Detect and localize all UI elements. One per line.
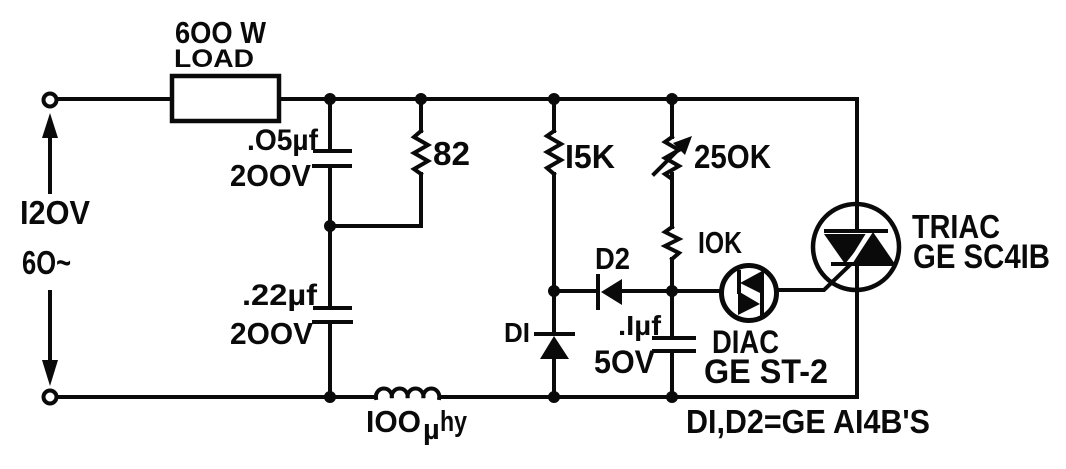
wire gate mid: D2 to DIAC <box>622 289 719 293</box>
wire right vertical upper: corner to TRIAC <box>855 99 859 202</box>
wire column A: top wire to C1 <box>328 99 332 149</box>
svg-text:IOK: IOK <box>698 225 742 260</box>
svg-text:5OV: 5OV <box>594 344 656 380</box>
node junction bottom D <box>666 391 678 403</box>
svg-text:I5K: I5K <box>565 138 615 175</box>
wire mid horizontal: node to R1 <box>330 224 421 228</box>
svg-text:GE SC4IB: GE SC4IB <box>913 238 1050 276</box>
node junction bottom C <box>548 391 560 403</box>
potentiometer R3 250K <box>654 136 692 179</box>
resistor R2 15K <box>547 131 561 174</box>
node junction top B <box>415 93 427 105</box>
arrow (source polarity, down) <box>42 292 58 386</box>
wire column D: R4 to C3 <box>670 259 674 336</box>
diac GE ST-2 <box>722 266 777 321</box>
wire column C: top wire to R2 <box>552 99 556 131</box>
node junction gate D <box>666 285 678 297</box>
arrow (source polarity, up) <box>42 113 58 192</box>
wire column B lower: to R1 <box>419 174 423 226</box>
triac GE SC41B <box>779 202 899 296</box>
wire column C: D1 to bottom wire <box>552 357 556 397</box>
wire bottom: inductor to right corner <box>440 395 857 399</box>
wire right vertical lower: TRIAC to bottom corner <box>855 264 859 397</box>
svg-text:.22µf: .22µf <box>242 279 318 312</box>
svg-text:.Iµf: .Iµf <box>618 310 662 341</box>
resistor R1 82 <box>414 131 428 174</box>
node junction A-mid <box>324 220 336 232</box>
wire top: load to right corner <box>281 97 857 101</box>
node junction top A <box>324 93 336 105</box>
diode D1 <box>536 334 573 359</box>
wire column D: top wire to R3 <box>670 99 674 137</box>
svg-text:LOAD: LOAD <box>174 45 254 73</box>
wire column B upper: R1 to top wire <box>419 99 423 131</box>
svg-text:.O5µf: .O5µf <box>247 124 319 157</box>
capacitor C1 .05uf 200V <box>314 151 350 166</box>
svg-text:D2: D2 <box>595 241 630 276</box>
svg-text:2OOV: 2OOV <box>230 316 313 351</box>
label 100uhy <box>366 404 467 446</box>
svg-text:I2OV: I2OV <box>20 194 90 231</box>
wire column D: C3 to bottom wire <box>670 353 674 397</box>
load resistor 600W LOAD <box>172 76 279 121</box>
node junction top C <box>548 93 560 105</box>
svg-text:µ: µ <box>423 414 440 446</box>
wire gate left: node to D2 <box>554 289 596 293</box>
svg-text:82: 82 <box>433 135 470 172</box>
wire top: terminal to load <box>58 97 170 101</box>
node junction gate C <box>548 285 560 297</box>
wire column C: R2 to D1 <box>552 174 556 332</box>
node junction bottom A <box>324 391 336 403</box>
capacitor C2 .22uf 200V <box>314 308 351 322</box>
svg-text:DI: DI <box>504 317 530 348</box>
svg-text:IOO: IOO <box>366 404 421 439</box>
svg-text:6O~: 6O~ <box>22 244 71 281</box>
svg-text:hy: hy <box>440 406 467 438</box>
capacitor C3 .1uf 50V <box>654 338 694 351</box>
wire column A: C2 to bottom wire <box>328 324 332 397</box>
svg-text:2OOV: 2OOV <box>230 158 311 193</box>
node junction top D <box>666 93 678 105</box>
svg-text:GE ST-2: GE ST-2 <box>704 353 828 391</box>
wire bottom: terminal to inductor <box>58 395 376 399</box>
terminal (top line input) <box>44 94 57 107</box>
wire column A: C1 to C2 <box>328 168 332 307</box>
inductor L1 100uhy <box>376 389 439 398</box>
terminal (bottom line input) <box>44 391 57 404</box>
wire column D: R3 to R4 <box>670 177 674 227</box>
svg-text:DI,D2=GE AI4B'S: DI,D2=GE AI4B'S <box>686 403 930 440</box>
resistor R4 10K <box>665 227 679 259</box>
diode D2 <box>598 276 622 308</box>
svg-text:25OK: 25OK <box>694 138 771 175</box>
